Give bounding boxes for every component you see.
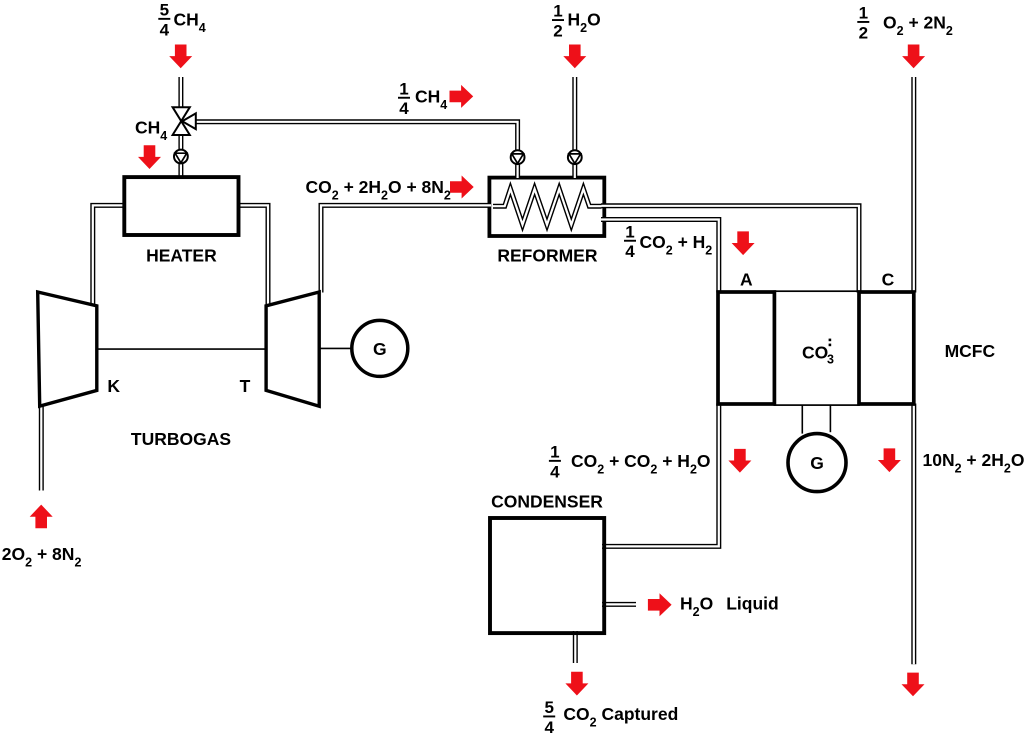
svg-text:CO: CO: [802, 342, 828, 362]
arrow right 1/4 CH4: [450, 85, 474, 108]
arrow down 1/2 H2O: [563, 45, 586, 69]
label 1/4 CH4: [398, 79, 447, 118]
svg-text:4: 4: [544, 718, 554, 736]
svg-text:3: 3: [827, 353, 834, 367]
wire air inlet to compressor K: [39, 405, 44, 491]
svg-text:CONDENSER: CONDENSER: [491, 492, 603, 512]
shaft MCFC to generator G2 (two lines): [801, 405, 803, 434]
arrow down cathode exhaust: [902, 673, 925, 697]
svg-text:1: 1: [550, 442, 559, 461]
label CO3= electrolyte: [802, 339, 834, 367]
compressor K trapezoid: [38, 292, 97, 406]
arrow down 1/2 O2+2N2: [902, 45, 925, 69]
svg-text:C: C: [882, 270, 895, 290]
svg-text:5: 5: [544, 698, 553, 717]
arrow down 1/4 CO2+H2: [732, 231, 755, 255]
label 1/4 CO2+H2: [624, 222, 712, 261]
svg-text:2O2 + 8N2: 2O2 + 8N2: [2, 544, 82, 570]
wire heater left to compressor K: [93, 205, 126, 307]
svg-text:5: 5: [160, 0, 169, 19]
svg-text:O2 + 2N2: O2 + 2N2: [883, 13, 953, 38]
label 1/4 CO2+CO2+H2O: [549, 442, 711, 481]
svg-text:H2O: H2O: [568, 9, 601, 35]
svg-text:1: 1: [399, 79, 408, 98]
shaft K-T: [97, 348, 266, 350]
inline valve symbol at heater inlet: [174, 150, 188, 164]
svg-text:10N2 + 2H2O: 10N2 + 2H2O: [923, 450, 1024, 476]
inline valve symbol at reformer CH4 inlet: [511, 150, 525, 164]
svg-text:HEATER: HEATER: [146, 245, 217, 265]
svg-text:A: A: [740, 270, 753, 290]
svg-text:MCFC: MCFC: [945, 341, 996, 361]
anode box A: [718, 292, 774, 404]
generator G2 circle: [788, 434, 846, 492]
svg-text:K: K: [107, 376, 120, 396]
svg-text:G: G: [373, 339, 387, 359]
arrow down 10N2+2H2O: [878, 448, 901, 472]
reformer box: [489, 178, 604, 236]
wire condenser bottom CO2 out: [573, 631, 578, 663]
svg-text:CH4: CH4: [174, 9, 206, 35]
svg-text:2: 2: [859, 23, 868, 42]
turbine T trapezoid: [266, 292, 319, 406]
inline valve symbol at reformer H2O inlet: [568, 150, 582, 164]
svg-text:CH4: CH4: [135, 117, 167, 143]
wire heater right to turbine T: [237, 205, 268, 307]
svg-text:4: 4: [399, 99, 409, 118]
three-way valve: [173, 107, 190, 121]
cathode box C: [859, 292, 914, 404]
svg-text:CH4: CH4: [415, 87, 447, 113]
svg-text:CO2 + CO2 + H2O: CO2 + CO2 + H2O: [571, 451, 711, 477]
arrow down CH4 heater feed: [138, 145, 161, 169]
svg-text:1: 1: [625, 222, 634, 241]
wire turbine exhaust to reformer left: [321, 205, 491, 292]
svg-text:4: 4: [625, 242, 635, 261]
label 5/4 CO2 Captured: [543, 698, 678, 736]
wire condenser H2O liquid out: [602, 602, 636, 607]
condenser box: [490, 518, 604, 633]
wire H2O feed down into reformer top: [572, 77, 577, 178]
wire reformer lower out to MCFC anode A top: [601, 220, 719, 293]
generator G1 circle: [352, 320, 408, 376]
svg-text:1: 1: [859, 4, 868, 23]
svg-text:CO2 Captured: CO2 Captured: [563, 704, 678, 730]
label 1/2 O2+2N2: [857, 4, 953, 43]
reformer coil zigzag: [493, 189, 602, 225]
heater box: [124, 177, 238, 235]
arrow right CO2+2H2O+8N2: [450, 176, 474, 199]
svg-text:2: 2: [553, 22, 562, 41]
arrow down CH4 main feed: [169, 45, 192, 69]
svg-text:T: T: [240, 376, 251, 396]
svg-text:CO2 + 2H2O + 8N2: CO2 + 2H2O + 8N2: [306, 177, 451, 203]
svg-text:TURBOGAS: TURBOGAS: [131, 429, 231, 449]
shaft T to generator G1: [319, 347, 352, 349]
svg-text:4: 4: [550, 462, 560, 481]
label 5/4 CH4: [158, 0, 205, 39]
svg-text:1: 1: [553, 2, 562, 21]
svg-text:G: G: [810, 453, 824, 473]
svg-text:CO2 + H2: CO2 + H2: [640, 232, 713, 257]
svg-text:H2OLiquid: H2OLiquid: [680, 594, 779, 620]
wire anode A bottom to condenser: [602, 404, 719, 547]
wire valve to heater (vertical): [178, 133, 183, 177]
electrolyte box CO3 (thin): [774, 291, 859, 405]
arrow down 1/4 CO2+CO2+H2O: [728, 449, 751, 473]
wire CH4 feed into valve (vertical): [178, 77, 183, 109]
wire reformer upper out to MCFC cathode C top: [601, 206, 859, 293]
wire O2+2N2 feed down to cathode C top: [911, 77, 916, 293]
arrow up 2O2+8N2: [30, 505, 53, 529]
arrow right H2O liquid: [648, 593, 672, 616]
arrow down 5/4 CO2 captured: [565, 672, 588, 696]
wire cathode C bottom exhaust down: [911, 404, 916, 665]
label 1/2 H2O: [552, 2, 601, 41]
svg-text:REFORMER: REFORMER: [497, 245, 598, 265]
svg-text:4: 4: [160, 20, 170, 39]
wire 1/4 CH4 branch: valve right, across, down into reformer top: [194, 122, 518, 178]
